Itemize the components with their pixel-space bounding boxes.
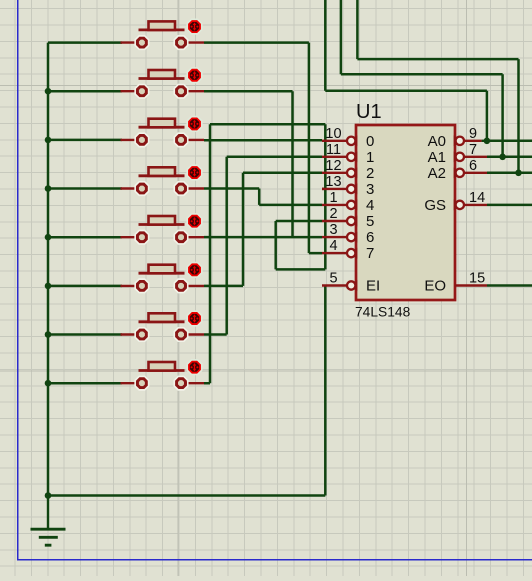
svg-text:U1: U1 xyxy=(356,101,382,123)
svg-text:10: 10 xyxy=(325,126,341,142)
svg-text:74LS148: 74LS148 xyxy=(355,305,411,320)
svg-text:7: 7 xyxy=(469,142,477,158)
svg-text:A2: A2 xyxy=(428,165,446,182)
svg-text:2: 2 xyxy=(329,206,337,222)
svg-text:14: 14 xyxy=(469,190,485,206)
svg-text:EI: EI xyxy=(366,278,380,295)
svg-text:3: 3 xyxy=(366,181,374,198)
svg-text:GS: GS xyxy=(424,197,446,214)
svg-text:1: 1 xyxy=(366,149,374,166)
svg-text:5: 5 xyxy=(366,213,374,230)
svg-text:A0: A0 xyxy=(428,133,446,150)
svg-text:1: 1 xyxy=(329,190,337,206)
svg-text:4: 4 xyxy=(329,238,337,254)
svg-text:0: 0 xyxy=(366,133,374,150)
svg-text:4: 4 xyxy=(366,197,374,214)
svg-text:6: 6 xyxy=(366,229,374,246)
svg-text:9: 9 xyxy=(469,126,477,142)
svg-text:A1: A1 xyxy=(428,149,446,166)
svg-text:7: 7 xyxy=(366,245,374,262)
svg-text:13: 13 xyxy=(325,174,341,190)
svg-text:6: 6 xyxy=(469,158,477,174)
svg-text:5: 5 xyxy=(329,271,337,287)
svg-text:2: 2 xyxy=(366,165,374,182)
svg-text:11: 11 xyxy=(326,142,341,158)
svg-text:3: 3 xyxy=(329,222,337,238)
svg-text:15: 15 xyxy=(469,271,485,287)
svg-text:12: 12 xyxy=(325,158,341,174)
svg-text:EO: EO xyxy=(424,278,446,295)
